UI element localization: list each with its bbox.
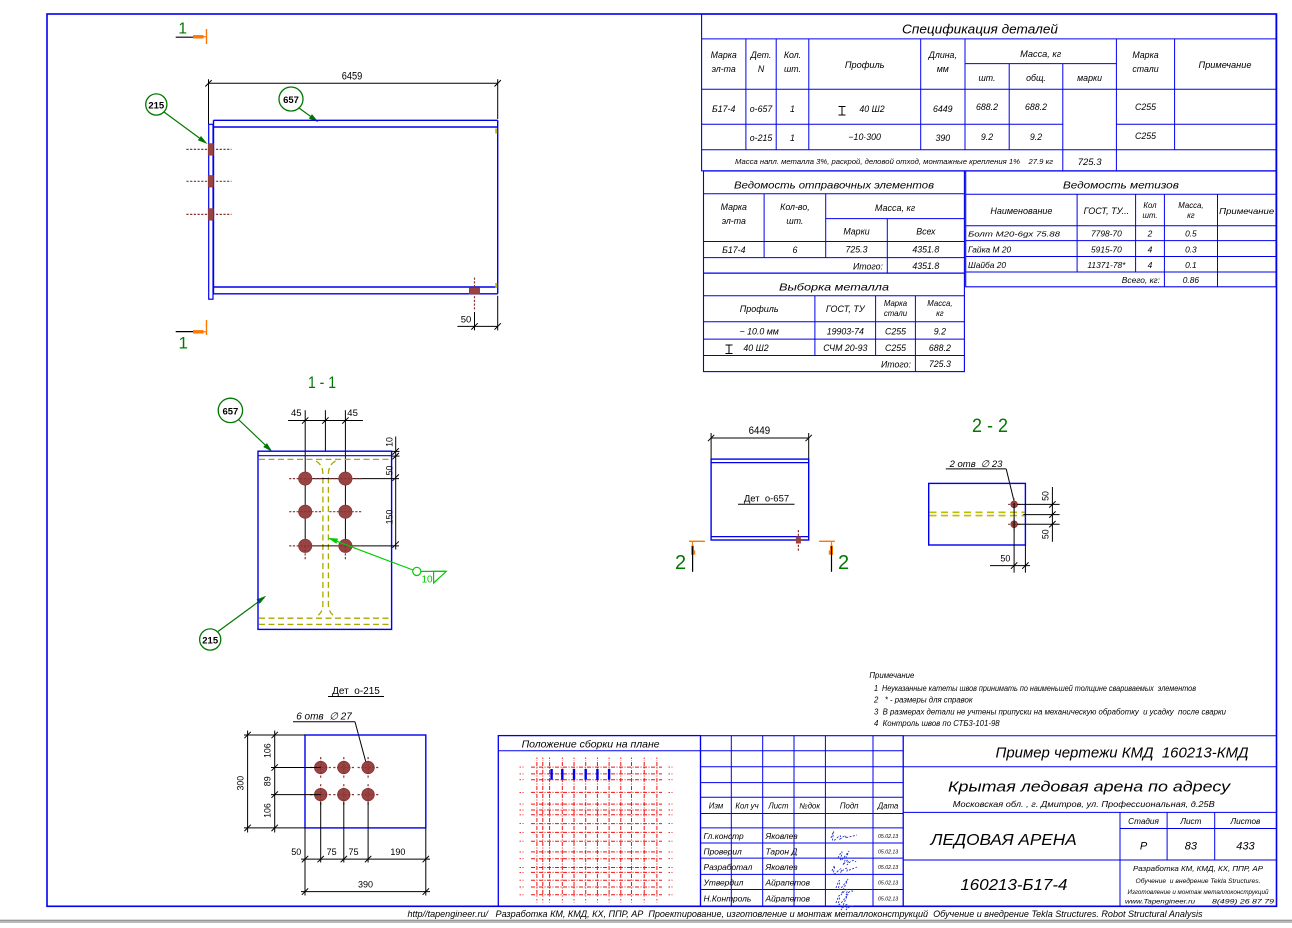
svg-text:Ведомость метизов: Ведомость метизов: [1063, 180, 1180, 192]
svg-text:Утвердил: Утвердил: [703, 878, 744, 888]
section mark 1 (top): orange cut symbol: [193, 29, 207, 44]
callout circle 657 (plan): [279, 87, 303, 111]
hole d27 row 1 col 3: [358, 757, 379, 778]
svg-text:эл-та: эл-та: [712, 64, 736, 74]
svg-text:Масса,: Масса,: [927, 299, 952, 308]
svg-text:Подп: Подп: [840, 802, 859, 811]
weld leader line (section 1-1): [328, 538, 413, 570]
svg-text:50: 50: [1000, 554, 1010, 564]
right dim extension stub top: [392, 451, 400, 456]
svg-text:Масса, кг: Масса, кг: [1020, 49, 1062, 59]
svg-text:марки: марки: [1077, 73, 1102, 83]
svg-text:05.02.13: 05.02.13: [878, 897, 898, 903]
section mark 1 (bottom): black line: [176, 331, 203, 333]
svg-text:725.3: 725.3: [845, 245, 867, 255]
svg-text:Ведомость отправочных элементо: Ведомость отправочных элементов: [734, 180, 935, 192]
svg-text:2 * - размеры для справок: 2 * - размеры для справок: [873, 696, 973, 705]
svg-text:Стадия: Стадия: [1128, 817, 1159, 826]
svg-text:106: 106: [263, 803, 273, 818]
svg-text:688.2: 688.2: [976, 102, 998, 112]
svg-text:СЧМ 20-93: СЧМ 20-93: [823, 343, 867, 353]
dim 45+45: extension lines: [305, 410, 345, 478]
svg-text:6 отв ∅ 27: 6 отв ∅ 27: [296, 711, 352, 722]
svg-text:шт.: шт.: [786, 216, 803, 226]
fasteners list texts: [968, 180, 1275, 286]
svg-text:19903-74: 19903-74: [827, 327, 864, 337]
svg-text:Положение сборки на плане: Положение сборки на плане: [522, 738, 660, 750]
bottom dim 50 (section 2-2): [990, 562, 1030, 568]
bolt cross at detail o-657: [793, 530, 803, 551]
hidden I-beam: top flange dashed: [259, 458, 391, 460]
svg-text:Профиль: Профиль: [740, 304, 779, 314]
svg-text:1: 1: [790, 104, 795, 114]
svg-text:Выборка металла: Выборка металла: [779, 282, 889, 294]
svg-text:390: 390: [935, 133, 950, 143]
svg-text:Всех: Всех: [916, 227, 936, 237]
svg-text:11371-78*: 11371-78*: [1087, 260, 1126, 270]
svg-text:50: 50: [1040, 529, 1050, 539]
svg-text:Итого:: Итого:: [853, 262, 884, 272]
svg-text:1 Неуказанные катеты швов при: 1 Неуказанные катеты швов принимать по н…: [874, 684, 1196, 693]
right dim chain (10,50,150): dimension line: [393, 437, 399, 550]
svg-text:688.2: 688.2: [1025, 102, 1047, 112]
hole top (section 2-2): [1008, 498, 1020, 510]
hole d27 row 2 col 2: [333, 784, 354, 805]
end plate inner top line: [258, 455, 392, 457]
bottom gray strip: [0, 921, 1292, 923]
dimension 6459: dimension line with oblique ticks: [205, 80, 501, 86]
svg-text:150: 150: [384, 510, 394, 525]
svg-text:мм: мм: [937, 64, 949, 74]
svg-text:о-657: о-657: [750, 104, 774, 114]
svg-text:45: 45: [347, 408, 358, 419]
bolt (section 1-1) row 1 col 2: [329, 472, 361, 485]
section mark 2 (left): black line: [692, 546, 694, 572]
svg-text:Дет о-215: Дет о-215: [332, 686, 380, 697]
svg-text:160213-Б17-4: 160213-Б17-4: [960, 877, 1067, 894]
dim 45+45: dimension line: [288, 417, 363, 423]
notes block: [869, 671, 1226, 728]
callout circle 657 (section 1-1): [218, 398, 242, 422]
svg-text:Наименование: Наименование: [990, 206, 1052, 216]
svg-text:Масса, кг: Масса, кг: [875, 203, 916, 213]
svg-text:0.5: 0.5: [1185, 229, 1197, 239]
svg-text:7798-70: 7798-70: [1091, 229, 1122, 239]
svg-text:6449: 6449: [749, 425, 771, 437]
svg-text:Б17-4: Б17-4: [712, 104, 735, 114]
svg-text:40 Ш2: 40 Ш2: [743, 343, 768, 353]
svg-text:106: 106: [263, 743, 273, 758]
bottom dim extension lines (detail o-215): [305, 802, 426, 896]
svg-text:Пример чертежи КМД 160213-КМД: Пример чертежи КМД 160213-КМД: [996, 745, 1249, 762]
hidden center lines (section 2-2): [930, 512, 1025, 515]
weld tick top right: [495, 129, 497, 134]
svg-text:ГОСТ, ТУ...: ГОСТ, ТУ...: [1084, 206, 1130, 216]
svg-text:ГОСТ, ТУ: ГОСТ, ТУ: [826, 304, 866, 314]
svg-text:9.2: 9.2: [981, 132, 993, 142]
svg-text:Примечание: Примечание: [1199, 60, 1252, 70]
svg-text:эл-та: эл-та: [722, 216, 746, 226]
plate o-215 outline: [305, 735, 426, 828]
svg-text:Дет о-657: Дет о-657: [744, 493, 789, 504]
bolt M20 on end plate #3: [186, 209, 231, 221]
svg-text:1: 1: [790, 133, 795, 143]
hidden I-beam: bottom flange dashed lines: [259, 618, 391, 624]
svg-text:Разработал: Разработал: [704, 862, 753, 872]
svg-text:9.2: 9.2: [1030, 132, 1042, 142]
hole d27 row 2 col 1: [310, 784, 331, 805]
svg-text:Болт М20-6gх 75.88: Болт М20-6gх 75.88: [968, 230, 1061, 239]
beam plan: bottom flange lines: [214, 287, 498, 294]
note 2 holes dia 23: [946, 459, 1014, 501]
svg-text:Б17-4: Б17-4: [722, 245, 745, 255]
svg-text:Марка: Марка: [721, 202, 747, 212]
detail o-657 label: [738, 493, 795, 504]
svg-text:83: 83: [1185, 841, 1198, 853]
dimension 50 (plan bottom right): extension lines: [475, 296, 498, 331]
bolt (section 1-1) row 3 col 2: [329, 539, 361, 560]
left dim extension lines: [244, 735, 321, 828]
svg-text:ЛЕДОВАЯ АРЕНА: ЛЕДОВАЯ АРЕНА: [930, 832, 1077, 849]
red grid plan: [520, 758, 673, 903]
company info: [1125, 865, 1274, 906]
title block right part grid: [903, 736, 1276, 907]
detail o-215 title: [328, 686, 384, 697]
svg-text:05.02.13: 05.02.13: [878, 865, 898, 871]
svg-text:стали: стали: [884, 309, 908, 318]
title block grid left part: [701, 736, 904, 907]
svg-text:40 Ш2: 40 Ш2: [859, 104, 884, 114]
svg-text:Профиль: Профиль: [845, 60, 885, 70]
svg-text:кг: кг: [936, 309, 944, 318]
shipping elements list texts: [721, 180, 940, 272]
svg-text:1: 1: [178, 21, 187, 38]
detail o-657 outline: [711, 459, 809, 540]
svg-text:45: 45: [291, 408, 302, 419]
hidden I-beam: web dashed double line with fillets: [316, 461, 323, 617]
svg-text:4: 4: [1148, 260, 1153, 270]
svg-text:Шайба 20: Шайба 20: [968, 260, 1006, 270]
bottom dim chain 50/75/75/190: [301, 856, 430, 862]
svg-text:1: 1: [178, 333, 187, 352]
svg-text:№док: №док: [799, 802, 820, 811]
bolt M20 on end plate #2: [186, 176, 231, 188]
svg-text:5915-70: 5915-70: [1091, 244, 1122, 254]
title block header texts: [709, 802, 899, 811]
svg-text:Обучение и внедрение Tekla St: Обучение и внедрение Tekla Structures.: [1136, 877, 1261, 885]
svg-text:05.02.13: 05.02.13: [878, 849, 898, 855]
svg-text:2 отв ∅ 23: 2 отв ∅ 23: [949, 459, 1004, 470]
svg-text:общ.: общ.: [1026, 73, 1046, 83]
svg-text:Кол уч: Кол уч: [735, 802, 758, 811]
svg-text:Тарон Д: Тарон Д: [766, 846, 798, 856]
svg-text:Изм: Изм: [709, 802, 724, 811]
svg-text:6449: 6449: [933, 104, 953, 114]
extension horizontals (section 2-2): [1017, 504, 1060, 524]
hole d27 row 1 col 2: [333, 757, 354, 778]
plate outline (section 2-2): [929, 483, 1026, 545]
svg-text:www.Tapengineer.ru: www.Tapengineer.ru: [1125, 899, 1195, 906]
weld symbol: circle, reference line, fillet triangle, size 10: [413, 567, 447, 585]
svg-text:Н.Контроль: Н.Контроль: [704, 894, 752, 904]
svg-text:Яковлев: Яковлев: [765, 831, 799, 841]
hole d27 row 2 col 3: [358, 784, 379, 805]
svg-text:300: 300: [235, 776, 245, 791]
svg-text:3 В размерах детали не учтены: 3 В размерах детали не учтены припуски н…: [874, 707, 1227, 716]
svg-text:http//tapengineer.ru/ Разраб: http//tapengineer.ru/ Разработка КМ, КМД…: [408, 909, 1203, 919]
svg-text:шт.: шт.: [784, 64, 801, 74]
svg-text:4 Контроль швов по СТБ3-101-9: 4 Контроль швов по СТБ3-101-98: [874, 719, 1000, 728]
bolt (section 1-1) row 1 col 1: [289, 472, 321, 485]
svg-text:725.3: 725.3: [929, 359, 951, 369]
svg-text:1 - 1: 1 - 1: [308, 373, 336, 392]
svg-text:2: 2: [675, 552, 686, 574]
svg-text:Гайка М 20: Гайка М 20: [968, 244, 1011, 254]
svg-text:0.86: 0.86: [1183, 275, 1200, 285]
svg-text:С255: С255: [885, 327, 906, 337]
dim 6449: dimension line: [708, 435, 812, 441]
extension verticals (section 2-2): [1014, 503, 1025, 573]
beam plan: left edge: [213, 120, 215, 293]
svg-text:Дет.: Дет.: [750, 50, 772, 60]
beam plan: top flange lines: [214, 120, 498, 127]
svg-text:Марка: Марка: [1132, 50, 1158, 60]
svg-text:Спецификация деталей: Спецификация деталей: [902, 23, 1058, 37]
svg-text:Итого:: Итого:: [881, 360, 912, 370]
leader 215 (section 1-1): [218, 596, 266, 632]
svg-text:Гл.констр: Гл.констр: [704, 831, 745, 841]
svg-text:Изготовление и монтаж металлок: Изготовление и монтаж металлоконструкций: [1128, 888, 1269, 896]
svg-text:0.1: 0.1: [1185, 260, 1197, 270]
svg-text:215: 215: [148, 101, 165, 112]
svg-text:657: 657: [222, 406, 238, 417]
bolt (section 1-1) row 3 col 1: [289, 539, 321, 560]
bottom rule line: [0, 919, 1292, 921]
section mark 2 (right): orange symbol: [819, 541, 835, 555]
blue assembly marks on plan: [550, 769, 610, 780]
svg-text:шт.: шт.: [979, 73, 996, 83]
bolt group frame lines (section 1-1): [305, 479, 399, 546]
svg-text:Лист: Лист: [767, 802, 789, 811]
svg-text:Айрапетов: Айрапетов: [765, 894, 811, 904]
left dim chain 106/89/106: [272, 731, 278, 833]
svg-text:Лист: Лист: [1179, 817, 1201, 826]
svg-text:2: 2: [1147, 229, 1153, 239]
svg-text:Примечание: Примечание: [1219, 207, 1275, 216]
svg-text:6459: 6459: [342, 71, 363, 83]
svg-text:Кол-во,: Кол-во,: [780, 202, 810, 212]
svg-text:− 10.0 мм: − 10.0 мм: [740, 327, 779, 337]
svg-text:Масса,: Масса,: [1178, 201, 1203, 210]
end plate outline (section 1-1): [258, 451, 392, 629]
svg-text:50: 50: [291, 847, 301, 857]
section mark 2 (right): black line: [831, 546, 833, 572]
left dim 300 line: [244, 731, 250, 833]
svg-text:С255: С255: [1135, 102, 1156, 112]
svg-text:433: 433: [1236, 841, 1255, 853]
beam plan: right end edge: [497, 120, 499, 293]
svg-text:стали: стали: [1132, 64, 1158, 74]
svg-text:688.2: 688.2: [929, 343, 951, 353]
right dim chain 50/50 (section 2-2): [1049, 487, 1055, 542]
dim 6449: extension lines: [711, 433, 809, 459]
svg-text:Разработка КМ, КМД, КХ, ППР, А: Разработка КМ, КМД, КХ, ППР, АР: [1133, 865, 1263, 873]
section mark 1 (bottom): orange cut symbol: [193, 320, 207, 335]
svg-text:Кол: Кол: [1143, 201, 1157, 210]
bolt M20 on end plate #1: [186, 144, 231, 156]
svg-text:Яковлев: Яковлев: [765, 862, 799, 872]
svg-text:50: 50: [1040, 491, 1050, 501]
leader 657 (section 1-1): [239, 420, 273, 452]
svg-text:−10·300: −10·300: [848, 132, 881, 142]
dimension 6459: extension lines: [209, 79, 498, 124]
svg-text:50: 50: [461, 315, 472, 326]
svg-text:Марки: Марки: [843, 227, 869, 237]
svg-text:8(499) 26 87 79: 8(499) 26 87 79: [1212, 899, 1274, 906]
signatures scribble: [831, 831, 857, 910]
svg-text:4351.8: 4351.8: [912, 261, 939, 271]
svg-text:С255: С255: [1135, 131, 1156, 141]
svg-text:Листов: Листов: [1229, 817, 1261, 826]
svg-text:N: N: [758, 64, 765, 74]
svg-text:Марка: Марка: [711, 50, 737, 60]
svg-text:Айрапетов: Айрапетов: [765, 878, 811, 888]
svg-text:Крытая ледовая арена по адресу: Крытая ледовая арена по адресу: [948, 780, 1231, 796]
fasteners list table grid: [966, 171, 1276, 287]
svg-text:4351.8: 4351.8: [912, 245, 939, 255]
stage/sheet headers: [1128, 817, 1261, 853]
svg-text:657: 657: [283, 95, 299, 106]
svg-text:шт.: шт.: [1142, 211, 1157, 220]
svg-text:190: 190: [390, 847, 405, 857]
bolt at beam bottom right (plan): [469, 278, 479, 311]
svg-text:6: 6: [792, 245, 797, 255]
beam plan: end plate o-215: [209, 124, 213, 299]
svg-text:390: 390: [358, 880, 373, 890]
svg-text:2: 2: [838, 552, 849, 574]
specification table grid: [702, 14, 1276, 171]
section mark 1 (top): black line: [176, 36, 200, 38]
metal take-off table grid: [704, 273, 965, 372]
svg-text:Длина,: Длина,: [928, 50, 957, 60]
bottom dim 390 line: [301, 888, 430, 894]
svg-text:4: 4: [1148, 244, 1153, 254]
svg-text:75: 75: [327, 847, 337, 857]
specification table texts: [711, 23, 1252, 169]
svg-text:89: 89: [263, 776, 273, 786]
shipping elements list table grid: [704, 171, 965, 273]
title block person rows: [703, 831, 899, 903]
svg-text:10: 10: [384, 437, 394, 447]
leader line 215 (plan) with arrow: [164, 112, 208, 144]
svg-text:05.02.13: 05.02.13: [878, 834, 898, 840]
svg-text:С255: С255: [885, 343, 906, 353]
section mark 2 (left): orange symbol: [689, 541, 705, 555]
svg-text:75: 75: [348, 847, 358, 857]
svg-text:05.02.13: 05.02.13: [878, 881, 898, 887]
svg-text:Масса напл. металла 3%, раскро: Масса напл. металла 3%, раскрой, деловой…: [735, 157, 1053, 166]
metal take-off texts: [726, 282, 953, 370]
svg-text:2 - 2: 2 - 2: [972, 416, 1008, 437]
svg-text:Кол.: Кол.: [784, 50, 801, 60]
bolt (section 1-1) row 2 col 2: [329, 505, 361, 518]
svg-text:Примечание: Примечание: [869, 671, 915, 680]
callout circle 215 (plan): [146, 94, 167, 115]
dimension 50 (plan): dimension line: [457, 323, 501, 329]
callout circle 215 (section 1-1): [200, 629, 221, 650]
detail o-657 inner flange lines: [711, 463, 809, 537]
hole bottom (section 2-2): [1008, 518, 1020, 530]
svg-text:кг: кг: [1187, 211, 1195, 220]
assembly position box: [498, 736, 700, 907]
leader line 657 (plan) with arrow: [299, 108, 319, 122]
bolt (section 1-1) row 2 col 1: [289, 505, 321, 518]
svg-text:10: 10: [421, 575, 433, 586]
svg-text:215: 215: [202, 636, 219, 647]
hole d27 row 1 col 1: [310, 757, 331, 778]
svg-text:Р: Р: [1140, 841, 1148, 853]
svg-text:9.2: 9.2: [934, 327, 946, 337]
weld tick bottom right: [495, 283, 497, 288]
note 6 holes dia 27: [293, 711, 367, 765]
svg-text:Московская обл. , г. Дмитров,: Московская обл. , г. Дмитров, ул. Профес…: [953, 800, 1216, 809]
svg-text:0.3: 0.3: [1185, 244, 1197, 254]
svg-text:Всего, кг:: Всего, кг:: [1122, 275, 1160, 285]
svg-text:о-215: о-215: [750, 133, 773, 143]
svg-text:725.3: 725.3: [1078, 157, 1102, 168]
svg-text:50: 50: [384, 466, 394, 476]
svg-text:Дата: Дата: [877, 802, 899, 811]
svg-text:Проверил: Проверил: [704, 846, 743, 856]
svg-text:Марка: Марка: [884, 299, 908, 308]
